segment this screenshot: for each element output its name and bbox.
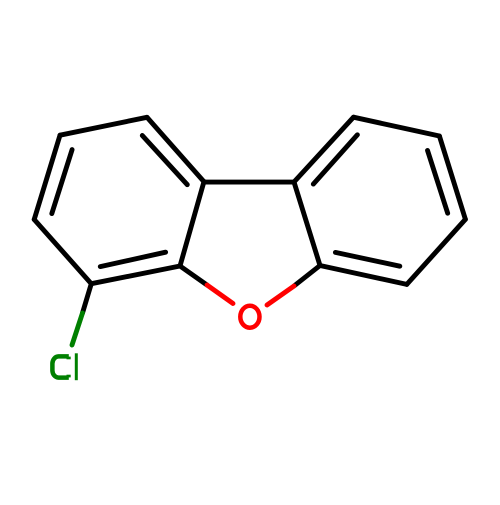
wire bond A4-Cl green half	[72, 313, 83, 345]
wire bond B5-O black half	[294, 266, 320, 287]
wire bond B4-B5 inner double line	[335, 252, 399, 266]
atom label Cl letter l (chlorine substituent)	[75, 353, 78, 380]
atom label O (furan oxygen)	[240, 306, 259, 328]
wire bond B1-B2 right ring top edge	[354, 117, 440, 136]
wire bond B5-O red half	[267, 286, 294, 305]
wire bond B2-B3 right ring right edge	[439, 136, 465, 219]
wire bond A6-B6 furan top edge	[204, 180, 294, 185]
wire bond A5-A6 furan left fused edge	[180, 182, 204, 267]
wire bond A4-Cl black half	[83, 284, 92, 313]
wire bond A6-A1 left ring top-right edge	[147, 117, 204, 182]
wire bond A5-O black half	[180, 266, 207, 285]
wire bond A4-A5 left ring bottom edge	[91, 266, 180, 284]
wire bond A2-A3 inner double line	[52, 150, 72, 214]
wire bond A3-A4 left ring bottom-left edge	[34, 220, 91, 284]
wire bond B6-B1 inner double line	[313, 135, 357, 184]
atom label Cl letter C terminal ticks	[66, 357, 70, 360]
wire bond A1-A2 left ring top-left edge	[60, 117, 147, 135]
wire bond A6-A1 inner double line	[142, 136, 187, 185]
atom label Cl letter C (chlorine substituent)	[52, 356, 68, 377]
wire bond B3-B4 right ring bottom-right edge	[407, 219, 466, 284]
wire bond B2-B3 inner double line	[428, 150, 448, 213]
wire bond B4-B5 right ring bottom edge	[320, 266, 407, 285]
wire bond B5-B6 furan right fused edge	[294, 182, 320, 266]
wire bond A2-A3 left ring left edge	[34, 135, 60, 219]
wire bond B6-B1 right ring top-left edge	[294, 117, 354, 182]
wire bond A5-O red half	[207, 285, 233, 304]
wire bond A4-A5 inner double line	[100, 252, 165, 266]
